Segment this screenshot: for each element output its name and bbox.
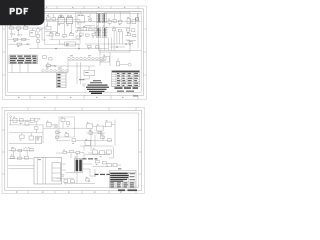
module enclosure M4 <box>59 117 75 137</box>
transformer T4 <box>74 157 82 173</box>
capacitor C35 <box>135 18 139 21</box>
wire <box>80 153 84 159</box>
capacitor C42 <box>25 120 29 125</box>
resistor R69 <box>98 131 101 133</box>
title block <box>107 164 136 189</box>
resistor R25 <box>22 38 26 40</box>
wire <box>19 64 21 73</box>
wire <box>83 76 89 79</box>
IC U1 <box>30 28 35 36</box>
wire <box>97 152 99 154</box>
wire <box>51 124 54 126</box>
wire <box>62 169 67 171</box>
resistor R56 <box>43 56 47 58</box>
IC U7 <box>46 25 51 30</box>
wire <box>120 64 129 66</box>
capacitor C33 <box>127 28 130 33</box>
inductor L5 <box>54 124 58 128</box>
resistor R57 <box>49 58 53 60</box>
diode D1 <box>37 35 40 40</box>
wire <box>94 169 96 177</box>
IC U37 <box>107 150 112 154</box>
IC U34 <box>34 158 62 185</box>
transformer T2 <box>58 14 64 25</box>
resistor R23 <box>24 25 28 29</box>
resistor R74 <box>11 155 15 159</box>
capacitor C22 <box>17 34 22 35</box>
module enclosure M2 <box>76 12 97 27</box>
wire <box>98 22 100 28</box>
wire <box>99 50 142 52</box>
resistor R75 <box>18 157 22 159</box>
wire <box>76 173 78 184</box>
wire +5V rail <box>9 11 141 13</box>
wire <box>45 66 95 73</box>
wire <box>102 133 104 141</box>
capacitor C31 <box>113 27 116 31</box>
capacitor C48 <box>71 180 75 183</box>
transformer T3 <box>67 16 73 26</box>
wire <box>112 123 116 125</box>
wire <box>50 39 81 41</box>
wire <box>109 52 111 66</box>
wire <box>83 163 92 165</box>
net label dashes <box>83 158 98 159</box>
wire <box>94 135 96 146</box>
delay coil chain L4 <box>42 68 69 73</box>
transformer T2 <box>58 14 64 25</box>
wire <box>90 129 92 151</box>
node n4 <box>54 65 56 67</box>
wire <box>127 40 136 42</box>
wire <box>9 143 36 145</box>
resistor network RN1 <box>97 26 101 38</box>
resistor R45 <box>80 33 84 37</box>
wire <box>57 140 70 142</box>
signal list table <box>9 55 38 64</box>
wire <box>18 29 20 34</box>
wire <box>66 172 74 174</box>
resistor R48 <box>88 45 92 49</box>
diode D5 <box>136 14 139 20</box>
inductor L6 <box>24 147 30 151</box>
resistor R35 <box>76 36 80 38</box>
IC U32 <box>97 124 104 131</box>
wire <box>80 62 82 84</box>
wire <box>51 65 55 67</box>
module enclosure M3 <box>104 12 130 27</box>
wire <box>60 40 65 44</box>
wire <box>80 145 113 147</box>
resistor R80 <box>103 162 107 164</box>
capacitor C46 <box>25 156 29 159</box>
wire <box>88 66 90 70</box>
wire <box>126 40 131 44</box>
wire <box>76 62 78 84</box>
wire <box>8 150 33 152</box>
ground <box>82 84 86 86</box>
resistor R43 <box>89 29 93 31</box>
node j2 <box>78 48 79 49</box>
net label row <box>95 174 111 175</box>
circle n5 <box>61 174 64 177</box>
IC U35 <box>93 148 98 154</box>
wire <box>42 125 44 143</box>
resistor network RN3 <box>97 13 101 23</box>
resistor R68 <box>65 132 69 136</box>
wire <box>99 48 101 66</box>
diode D3 <box>35 127 38 133</box>
wire <box>100 131 102 136</box>
resistor R79 <box>96 161 100 165</box>
resistor R64 <box>20 135 25 140</box>
IC U36 <box>100 151 105 157</box>
delay line DL2 <box>84 70 95 75</box>
node j3 <box>116 46 117 47</box>
wire <box>85 43 130 45</box>
wire <box>71 24 73 34</box>
wire <box>93 166 108 168</box>
wire <box>125 35 128 37</box>
wire <box>47 22 49 26</box>
resistor R46 <box>86 34 90 36</box>
wire <box>77 30 102 32</box>
wire <box>76 139 95 141</box>
wire <box>95 140 112 142</box>
wire <box>62 122 64 128</box>
drawing number text <box>117 91 134 92</box>
lamp DS1 <box>128 63 131 66</box>
wire <box>73 152 76 154</box>
capacitor C44 <box>29 136 33 140</box>
resistor R21 <box>10 25 14 29</box>
resistor R44 <box>94 28 97 33</box>
capacitor C41 <box>13 117 17 122</box>
sheet footer text <box>118 189 137 191</box>
sheet number text <box>133 95 138 96</box>
vertical chain D7 <box>56 130 61 142</box>
wire +12V rail <box>9 13 141 15</box>
wire <box>45 31 57 33</box>
node n3 <box>125 43 127 45</box>
resistor R63 <box>61 117 65 122</box>
wire <box>11 29 13 33</box>
delay coil chain L3 <box>68 55 107 62</box>
wire <box>11 64 13 73</box>
resistor R66 <box>108 139 112 142</box>
capacitor C32 <box>118 29 121 32</box>
wire <box>9 132 43 134</box>
wire <box>89 26 91 28</box>
wire <box>64 24 66 35</box>
wire <box>43 127 87 129</box>
IC U30 <box>36 136 42 143</box>
resistor network RN4 <box>102 13 106 23</box>
wire <box>98 38 100 51</box>
resistor R33 <box>70 32 74 36</box>
wire <box>85 25 95 27</box>
capacitor C11 <box>47 14 51 21</box>
wire <box>137 13 139 49</box>
resistor R47 <box>92 34 96 38</box>
wire <box>90 175 96 177</box>
resistor R55 <box>129 42 132 46</box>
resistor R54 <box>133 35 136 37</box>
wire <box>99 44 130 52</box>
wire <box>8 38 30 40</box>
transistor Q1 <box>36 27 42 35</box>
resistor R24 <box>14 38 18 42</box>
wire <box>93 125 97 127</box>
node n2 <box>76 31 78 33</box>
capacitor C43 <box>47 121 52 127</box>
resistor R26 <box>17 43 21 47</box>
resistor R71 <box>12 147 16 151</box>
revision table <box>112 70 140 86</box>
module enclosure M1 <box>44 20 80 45</box>
wire <box>114 120 116 147</box>
resistor R34 <box>50 32 54 36</box>
resistor R77 <box>70 150 74 152</box>
wire <box>109 147 114 158</box>
node j1 <box>55 48 56 49</box>
wire <box>57 23 59 33</box>
connector J1 <box>57 73 67 88</box>
resistor R76 <box>63 150 67 154</box>
part number row <box>115 87 139 89</box>
wire bus <box>46 21 141 23</box>
resistor R22 <box>17 27 21 31</box>
wire <box>105 152 107 154</box>
wire <box>62 163 67 165</box>
wire <box>88 152 93 154</box>
delay line DL1 <box>65 42 75 46</box>
resistor R31 <box>56 32 60 36</box>
transformer T4a <box>77 12 85 25</box>
title text <box>79 79 109 94</box>
wire <box>70 153 72 158</box>
resistor R82 <box>89 130 93 134</box>
wire <box>103 125 105 127</box>
wire <box>9 124 44 126</box>
IC U6 <box>132 20 136 24</box>
wire <box>104 38 106 51</box>
resistor R49 <box>96 46 100 48</box>
wire <box>110 46 125 48</box>
capacitor C16 <box>119 12 122 25</box>
node n6 <box>88 180 90 182</box>
capacitor C14 <box>108 19 111 26</box>
resistor R72 <box>18 149 22 151</box>
wire <box>8 165 34 167</box>
resistor R32 <box>63 35 67 39</box>
wire <box>29 46 108 49</box>
diode D4 <box>67 122 70 127</box>
resistor R41 <box>78 27 82 31</box>
transistor Q2 <box>35 118 40 125</box>
wire <box>27 64 29 73</box>
wire <box>13 151 27 158</box>
wire <box>75 44 79 49</box>
wire <box>8 27 45 29</box>
wire <box>86 183 95 185</box>
capacitor C34 <box>132 29 135 32</box>
wire <box>85 154 110 156</box>
IC U31 <box>87 122 93 128</box>
resistor R61 <box>20 119 24 124</box>
resistor R52 <box>117 58 120 66</box>
resistor R51 <box>47 63 51 67</box>
wire <box>9 119 34 121</box>
wire <box>83 146 85 151</box>
IC U33 <box>106 120 112 126</box>
wire <box>30 133 32 136</box>
transformer T3 <box>67 16 73 26</box>
wire <box>8 72 42 74</box>
wire <box>8 167 34 169</box>
connector P1 <box>10 116 12 125</box>
capacitor C21 <box>10 34 15 38</box>
wire <box>83 169 90 176</box>
wire <box>46 35 50 37</box>
resistor network RN2 <box>103 26 107 38</box>
IC U38 <box>85 139 91 146</box>
wire <box>51 32 53 40</box>
PDF badge <box>0 0 45 25</box>
resistor R78 <box>76 151 80 155</box>
termination Z1 <box>103 55 110 62</box>
wire <box>67 60 69 72</box>
resistor R73 <box>30 149 34 151</box>
capacitor C47 <box>64 180 68 184</box>
wire <box>67 152 70 154</box>
wire <box>21 133 23 135</box>
resistor R81 <box>86 177 90 181</box>
wire bus <box>109 31 123 51</box>
wire <box>66 183 86 185</box>
capacitor C15 <box>113 14 116 23</box>
wire <box>86 132 105 134</box>
inductor L11 <box>88 14 92 22</box>
wire <box>104 22 106 28</box>
wire <box>8 43 30 45</box>
wire <box>56 177 74 179</box>
capacitor C12 <box>52 14 56 21</box>
capacitor C49 <box>72 139 76 144</box>
wire <box>8 157 33 159</box>
resistor R62 <box>31 118 35 122</box>
wire <box>42 28 46 40</box>
resistor R42 <box>83 26 87 31</box>
resistor R53 <box>128 32 131 36</box>
resistor R65 <box>101 134 105 138</box>
IC U5 <box>127 17 131 23</box>
wire <box>56 152 63 154</box>
diode D2 <box>37 40 40 46</box>
node n1 <box>27 43 29 45</box>
